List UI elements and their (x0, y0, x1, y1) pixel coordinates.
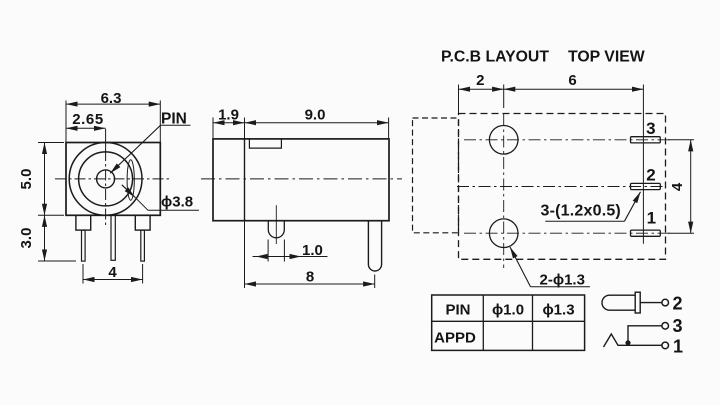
svg-text:ϕ1.3: ϕ1.3 (542, 301, 574, 318)
svg-text:2.65: 2.65 (72, 111, 104, 128)
table cell phi1.0 (492, 301, 524, 318)
holes vertical centerline (503, 114, 505, 268)
label 3-(1.2x0.5) with leader (541, 192, 641, 222)
dimension 2.65 (66, 111, 106, 128)
barrel bore circle (79, 152, 133, 206)
table cell APPD (434, 330, 476, 347)
label PIN with leader (110, 111, 190, 174)
hole top (phi1.3) (489, 126, 518, 155)
pin 1 base (right) (135, 215, 150, 230)
side centerline (201, 178, 402, 180)
dimension 4 (pcb) (668, 140, 694, 233)
svg-text:3.0: 3.0 (18, 228, 35, 249)
junction dot (625, 340, 630, 345)
pin 1 leg (right) (141, 230, 145, 261)
centerline pad 1 row (464, 232, 671, 234)
flange outline dashed (413, 118, 459, 233)
terminal 2 label (673, 294, 683, 314)
svg-text:1: 1 (673, 337, 683, 357)
dimension 6.3 (66, 90, 160, 143)
center pin hole circle (97, 170, 115, 188)
svg-text:ϕ1.0: ϕ1.0 (492, 301, 524, 318)
pad label 3 (646, 119, 655, 138)
dimension 3.0 (18, 215, 76, 261)
table cell phi1.3 (542, 301, 574, 318)
svg-text:TOP VIEW: TOP VIEW (568, 48, 645, 65)
svg-text:2-ϕ1.3: 2-ϕ1.3 (540, 272, 585, 289)
dc center pin (268, 221, 284, 238)
centerline pad 2 row (457, 186, 666, 188)
dimension 1.0 (253, 240, 328, 262)
pad label 2 (646, 166, 655, 185)
pin 2 leg (middle) (111, 215, 115, 260)
plug flange bar (635, 292, 640, 313)
dimension 8 (245, 221, 375, 288)
terminal 3 circle (662, 323, 669, 330)
table cell PIN (445, 301, 470, 318)
svg-text:4: 4 (108, 264, 117, 281)
mounting pin (368, 221, 381, 271)
pad 1 (631, 230, 661, 236)
svg-text:8: 8 (306, 269, 314, 286)
flange line (244, 139, 246, 221)
svg-text:1.0: 1.0 (302, 242, 323, 259)
svg-text:ϕ3.8: ϕ3.8 (161, 194, 193, 211)
pin 3 base (left) (76, 215, 91, 230)
svg-text:1: 1 (647, 209, 656, 228)
hole bottom (phi1.3) (489, 219, 518, 248)
svg-text:1.9: 1.9 (218, 107, 239, 124)
pad 2 (631, 183, 661, 189)
svg-text:5.0: 5.0 (18, 169, 35, 190)
terminal 1 label (673, 337, 683, 357)
dimension 1.9 (213, 107, 245, 139)
wire to terminal 2 (640, 302, 662, 304)
table frame (432, 295, 585, 350)
dimension 6 (pcb) (504, 72, 644, 244)
svg-text:4: 4 (669, 182, 686, 191)
pcb body outline dashed (459, 114, 666, 260)
wire to terminal 3 (628, 326, 662, 346)
label phi3.8 with leader (122, 185, 199, 211)
svg-text:2: 2 (673, 294, 683, 314)
dc pin centerline (275, 205, 277, 244)
terminal 2 circle (662, 299, 669, 306)
dimension 5.0 (18, 143, 64, 216)
switch contact zigzag (604, 334, 663, 347)
terminal 1 circle (662, 342, 669, 349)
svg-text:6: 6 (568, 72, 576, 89)
svg-text:3: 3 (646, 119, 655, 138)
svg-text:PIN: PIN (445, 301, 470, 318)
centerline pad 3 row (464, 139, 671, 141)
plug pin symbol (602, 295, 635, 310)
top notch (249, 139, 281, 148)
pad label 1 (647, 209, 656, 228)
bore wall arc (127, 160, 134, 200)
dimension 4 (83, 264, 143, 284)
pad 3 (631, 137, 661, 143)
vertical centerline (105, 129, 107, 227)
dimension 2 (pcb) (459, 72, 504, 114)
svg-text:P.C.B LAYOUT: P.C.B LAYOUT (441, 48, 549, 65)
horizontal centerline (55, 178, 171, 180)
pin 3 leg (left) (82, 230, 86, 261)
title TOP VIEW (568, 48, 645, 65)
title P.C.B LAYOUT (441, 48, 549, 65)
svg-text:2: 2 (476, 72, 484, 89)
outer housing circle (69, 143, 142, 216)
dimension 9.0 (245, 107, 389, 139)
svg-text:3-(1.2x0.5): 3-(1.2x0.5) (541, 203, 621, 220)
label 2-phi1.3 with leader (510, 247, 590, 289)
svg-text:6.3: 6.3 (101, 90, 122, 107)
terminal 3 label (673, 316, 683, 336)
svg-text:3: 3 (673, 316, 683, 336)
front view body (66, 143, 160, 216)
svg-text:9.0: 9.0 (305, 107, 326, 124)
side view body (213, 139, 389, 221)
svg-text:2: 2 (646, 166, 655, 185)
svg-text:APPD: APPD (434, 330, 476, 347)
